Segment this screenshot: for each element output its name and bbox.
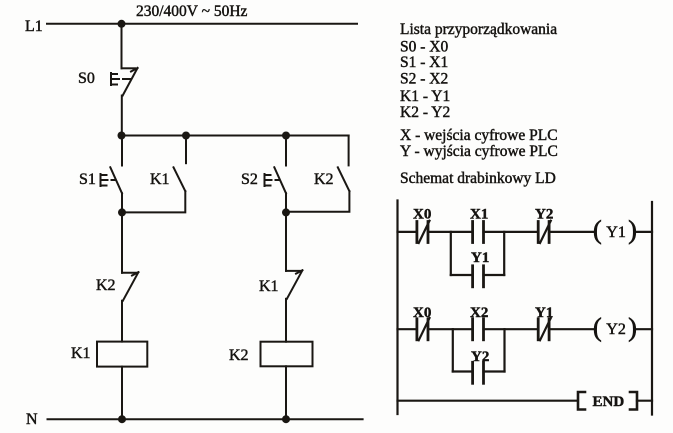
END instruction box (578, 392, 652, 410)
svg-text:S0: S0 (78, 70, 95, 87)
coil K1 (71, 342, 147, 367)
ladder diagram (398, 201, 653, 415)
parallel branch rung 1 (Y1 seal-in) (451, 232, 504, 275)
svg-text:X - wejścia cyfrowe PLC: X - wejścia cyfrowe PLC (400, 127, 558, 144)
junction dot N / K2 branch (282, 415, 290, 423)
svg-text:(: ( (593, 216, 602, 245)
svg-text:K2: K2 (229, 347, 249, 364)
contact X2 (NO) rung 2 (470, 305, 488, 340)
junction dot N / K1 branch (118, 415, 126, 423)
svg-text:(: ( (593, 313, 602, 342)
pushbutton S1 (NO) (79, 167, 122, 193)
rung 1 wire segments (398, 231, 417, 233)
wire coil K1 to N bus (121, 367, 123, 420)
junction dot S1/K1 join (118, 208, 126, 216)
parallel branch rung 2 (Y2 seal-in) (453, 329, 505, 371)
wire S1 bottom (121, 193, 123, 212)
coil K2 (229, 342, 313, 367)
LD right rail (651, 202, 653, 415)
contact Y1 (NO) branch rung 1 (471, 250, 489, 287)
wire S2 bottom (285, 193, 287, 212)
svg-text:K2 - Y2: K2 - Y2 (400, 104, 450, 121)
contact X1 (NO) rung 1 (470, 207, 488, 243)
svg-text:S2 - X2: S2 - X2 (400, 71, 448, 88)
wire S1 join down to K2 NC (121, 212, 123, 272)
wire K1 NC to coil K2 (285, 299, 287, 342)
coil Y2 rung 2 (593, 313, 637, 342)
wire bus2 down to S1 (121, 136, 123, 166)
contact Y1 (NC) rung 2 (535, 305, 553, 340)
svg-text:): ) (628, 313, 637, 342)
junction dot bus2 / K1 (182, 132, 190, 140)
svg-text:K2: K2 (96, 277, 116, 294)
wire L1 top bus (47, 23, 357, 25)
svg-text:S0 - X0: S0 - X0 (400, 39, 448, 56)
svg-text:K2: K2 (314, 171, 334, 188)
coil Y1 rung 1 (593, 216, 637, 245)
LD left rail (396, 201, 398, 415)
wire S0 to second bus (121, 96, 123, 136)
wire K1 bottom to join (122, 191, 185, 212)
junction dot S2/K2 join (282, 208, 290, 216)
svg-text:K1 - Y1: K1 - Y1 (400, 88, 450, 105)
svg-text:S1 - X1: S1 - X1 (400, 54, 448, 71)
contact K2 (NC interlock) (96, 272, 138, 301)
svg-text:Schemat drabinkowy LD: Schemat drabinkowy LD (400, 170, 556, 187)
junction dot bus2 / S1 (118, 132, 126, 140)
wire S2 join down to K1 NC (285, 212, 287, 271)
svg-text:): ) (628, 216, 637, 245)
contact K1 (NO) (150, 167, 185, 191)
wire K2 bottom to join (286, 191, 349, 212)
wire bus2 down to K1 contact (185, 136, 187, 164)
svg-text:S1: S1 (79, 171, 96, 188)
svg-text:Y1: Y1 (606, 224, 626, 241)
contact K1 (NC interlock) (259, 270, 302, 299)
pushbutton S2 (NO) (241, 167, 286, 193)
wire END rung (398, 400, 578, 402)
wire bus2 down to S2 (285, 136, 287, 166)
svg-text:END: END (593, 394, 625, 410)
contact Y2 (NC) rung 1 (535, 207, 553, 243)
svg-text:Lista przyporządkowania: Lista przyporządkowania (400, 21, 557, 38)
contact K2 (NO) (314, 167, 349, 191)
svg-text:S2: S2 (241, 171, 258, 188)
wire coil K2 to N bus (285, 366, 287, 419)
svg-text:Y - wyjścia cyfrowe PLC: Y - wyjścia cyfrowe PLC (400, 143, 558, 160)
pushbutton S0 (NC) (78, 68, 138, 96)
wire from L1 bus down to S0 (121, 24, 123, 69)
svg-text:Y2: Y2 (606, 321, 626, 338)
wire K2 NC to coil K1 (121, 301, 123, 342)
svg-text:Y1: Y1 (471, 250, 489, 266)
svg-text:K1: K1 (150, 171, 170, 188)
svg-text:K1: K1 (71, 345, 91, 362)
junction dot bus2 / S2 (282, 132, 290, 140)
assignment list text block (400, 21, 558, 187)
rung 2 wire segments (398, 328, 417, 330)
svg-text:K1: K1 (259, 278, 279, 295)
junction dot at L1 bus / S0 branch (118, 20, 126, 28)
svg-text:N: N (26, 411, 38, 428)
contact Y2 (NO) branch rung 2 (471, 349, 489, 383)
contact X0 (NC) rung 2 (413, 305, 431, 340)
contact X0 (NC) rung 1 (413, 207, 431, 243)
svg-text:230/400V ~ 50Hz: 230/400V ~ 50Hz (136, 3, 248, 20)
wire bus2 corner down to K2 contact (348, 136, 350, 166)
wire second bus (122, 135, 349, 137)
wire N bottom bus (48, 418, 363, 420)
svg-text:L1: L1 (25, 18, 43, 35)
